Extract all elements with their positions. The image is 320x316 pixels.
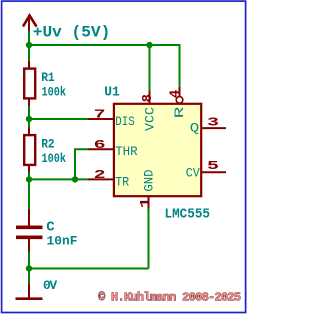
svg-text:R: R <box>172 106 187 118</box>
svg-text:4: 4 <box>168 90 184 98</box>
svg-text:100k: 100k <box>42 151 67 166</box>
svg-text:10nF: 10nF <box>47 233 78 248</box>
svg-text:5: 5 <box>207 159 219 173</box>
svg-text:THR: THR <box>115 144 138 159</box>
svg-text:GND: GND <box>142 169 157 191</box>
svg-text:100k: 100k <box>42 84 67 99</box>
svg-text:R2: R2 <box>41 136 55 151</box>
svg-text:0V: 0V <box>43 278 57 293</box>
svg-text:VCC: VCC <box>142 107 157 131</box>
svg-text:© H.Kuhlmann 2008-2025: © H.Kuhlmann 2008-2025 <box>98 290 241 304</box>
svg-text:2: 2 <box>94 168 106 182</box>
svg-text:LMC555: LMC555 <box>165 207 211 223</box>
svg-text:R1: R1 <box>41 70 55 85</box>
svg-text:CV: CV <box>186 165 200 180</box>
svg-text:6: 6 <box>94 138 106 152</box>
svg-text:DIS: DIS <box>115 114 135 129</box>
svg-text:8: 8 <box>140 94 156 102</box>
svg-text:+Uv (5V): +Uv (5V) <box>33 23 111 41</box>
svg-text:1: 1 <box>138 197 154 208</box>
svg-text:U1: U1 <box>104 84 120 100</box>
svg-text:TR: TR <box>115 174 129 189</box>
svg-text:3: 3 <box>207 115 219 129</box>
svg-text:Q: Q <box>190 121 200 136</box>
svg-text:7: 7 <box>94 108 106 122</box>
